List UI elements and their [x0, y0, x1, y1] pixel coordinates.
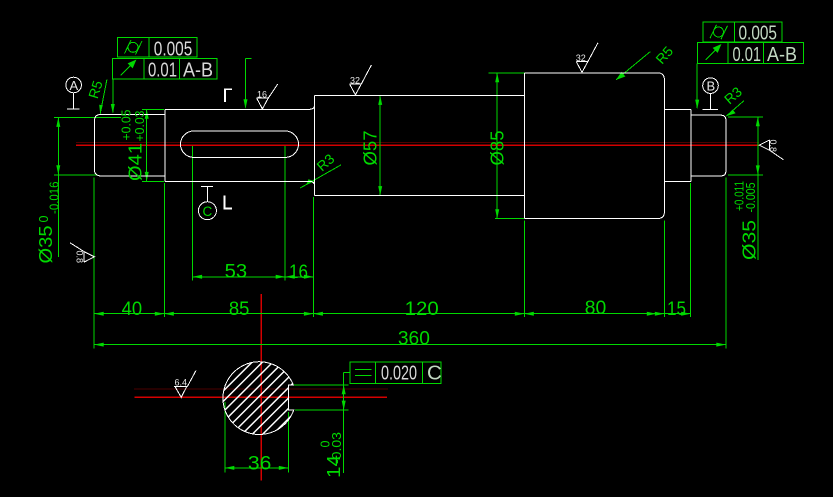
leader to section B top [246, 58, 252, 60]
arrows dim 40 [94, 312, 104, 316]
section D bottom edge with R5 corner [524, 212, 664, 219]
cutting plane mark L [225, 195, 233, 208]
dim Ø35 right: dimension line [757, 117, 759, 260]
dim Ø35 left: dimension line [57, 117, 59, 257]
wire: main horizontal centerline (red) [76, 144, 759, 146]
dim Ø35 right: extension lines [728, 116, 763, 118]
symbol cylindricity (right frame) [714, 27, 724, 37]
svg-text:0.8: 0.8 [768, 140, 778, 153]
svg-text:16: 16 [289, 262, 308, 283]
arrows dim 14 [342, 385, 346, 395]
leader radius R3 right [726, 101, 744, 117]
roughness 3.2 on section C [350, 65, 372, 95]
arrow R3 middle leader [306, 179, 314, 185]
svg-text:0.020: 0.020 [381, 362, 417, 385]
extension line at x=725 (360 right) [725, 178, 727, 349]
svg-text:C: C [203, 204, 213, 219]
svg-text:C: C [427, 362, 442, 385]
section E (15 long) top edge [664, 109, 690, 111]
dim text 14 0/-0.03 (rotated) [323, 455, 344, 478]
face E/F [690, 110, 692, 182]
cutting plane mark Γ [225, 89, 232, 102]
section B (Ø41x85) top edge with R3 fillet [165, 104, 315, 109]
roughness 1.6 on section B [257, 84, 278, 109]
face A/B [164, 109, 166, 181]
section mark C circle [198, 186, 216, 219]
frame cylindricity 0.005 (right) [703, 22, 782, 42]
symbol circular runout (right frame) [706, 47, 719, 60]
arrows dim 16 [285, 275, 295, 279]
radius label R3 middle (rotated) [313, 150, 337, 174]
face B/C [314, 95, 316, 195]
arrows dim 120 [313, 312, 323, 316]
extension line at x=94 (40 dim / 360 dim) [93, 178, 95, 349]
dim 14: extension lines [291, 384, 349, 386]
svg-text:A: A [70, 78, 79, 93]
dim Ø41: dimension line [146, 109, 148, 181]
dim 36: extension lines [224, 402, 226, 473]
roughness 3.2 on section D [576, 43, 598, 73]
dim 36: dimension line [225, 467, 288, 469]
svg-text:53: 53 [225, 261, 248, 282]
leader radius R5 right [616, 52, 650, 80]
extension line from keyway left center [192, 146, 194, 281]
dim Ø85: dimension line [496, 73, 498, 219]
frame cylindricity 0.005 (left) [117, 38, 197, 57]
face C/D [523, 73, 525, 219]
dim Ø35 left: extension lines [54, 116, 121, 118]
svg-text:32: 32 [576, 53, 586, 63]
svg-text:0.8: 0.8 [75, 251, 85, 264]
dim Ø41: extension lines [142, 108, 164, 110]
arrow R5 right leader [616, 72, 625, 80]
wire: section view horizontal centerline ghost [134, 388, 388, 390]
roughness 6.4 at section view [174, 371, 196, 398]
symbol cylindricity (left frame) [128, 42, 138, 52]
leader from right tolerance frames to section E [696, 63, 698, 108]
svg-text:Ø41: Ø41 [125, 143, 146, 181]
svg-text:A-B: A-B [767, 43, 797, 66]
svg-text:+0.03: +0.03 [133, 110, 147, 141]
face D/E [663, 80, 665, 212]
svg-text:360: 360 [398, 329, 430, 350]
section C (Ø57x120) top edge [315, 94, 525, 96]
symbol circular runout (left frame) [121, 63, 134, 76]
svg-text:-0.03: -0.03 [330, 432, 344, 464]
frame runout 0.01 A-B (left) [113, 58, 218, 79]
extension line at x=313 (85/120) [312, 197, 314, 317]
svg-text:0: 0 [37, 216, 51, 223]
arrows Ø35 right [756, 117, 760, 127]
symbol symmetry (bottom frame) [355, 369, 372, 371]
arrows Ø41 [145, 109, 149, 119]
svg-text:80: 80 [585, 298, 607, 319]
svg-text:120: 120 [405, 299, 439, 320]
svg-text:16: 16 [257, 89, 267, 99]
svg-text:85: 85 [229, 299, 250, 320]
keyway slot (stadium) [181, 131, 299, 157]
svg-text:-0.005: -0.005 [744, 182, 758, 212]
arrows dim 53 [193, 275, 203, 279]
dim 14: dimension line + leader elbow to frame [343, 373, 345, 473]
arrow leader frames left [111, 104, 115, 114]
datum B symbol [703, 78, 719, 110]
leader from left tolerance frames to section A [112, 79, 114, 113]
svg-text:0.005: 0.005 [739, 22, 778, 45]
arrows dim 85 [164, 312, 174, 316]
arrows dim 15 [647, 312, 657, 316]
arrow leader frames right [695, 100, 699, 110]
roughness 0.8 right (rotated, points left) [759, 140, 783, 160]
section E bottom edge [664, 180, 690, 182]
wire: main centerline ghost [76, 142, 759, 144]
svg-text:6.4: 6.4 [175, 378, 188, 388]
roughness 0.8 left (rotated, points right) [70, 243, 95, 262]
svg-text:Ø57: Ø57 [360, 131, 381, 166]
extension line at x=524 (120/80) [523, 221, 525, 318]
arrows Ø35 left [56, 117, 60, 127]
dim line 40/85/120/80/15 [94, 313, 691, 315]
leader radius R5 left [100, 80, 107, 114]
radius label R3 right (rotated) [721, 83, 745, 107]
arrowheads (green) [56, 72, 760, 470]
section C bottom edge [315, 195, 525, 197]
extension line at x=664 (80/15) [663, 221, 665, 318]
svg-text:0.005: 0.005 [154, 37, 193, 60]
svg-text:Ø35: Ø35 [35, 226, 56, 264]
extension line at x=690 (end of 15) [690, 183, 692, 317]
hatched shaft cross-section [223, 362, 294, 435]
frame runout 0.01 A-B (right) [698, 43, 804, 64]
section F (Ø35x20) outline with R3 corners [691, 115, 726, 176]
arrows dim 80 [524, 312, 534, 316]
dim text Ø35 0/-0.016 (rotated, left) [35, 226, 56, 264]
dim text Ø41 +0.05/+0.03 (rotated) [125, 143, 146, 181]
svg-text:+0.05: +0.05 [120, 109, 134, 140]
dim text Ø85 (rotated) [487, 131, 508, 166]
radius label R5 left (rotated) [85, 78, 106, 100]
svg-text:-0.016: -0.016 [48, 181, 62, 214]
dim line 53/16 [193, 276, 314, 278]
wire: section view horizontal centerline (red) [135, 396, 387, 398]
extension line from keyway right center [284, 146, 286, 281]
arrows dim 36 [225, 466, 235, 470]
svg-text:B: B [707, 79, 716, 94]
extension line at x=164 (40/85) [163, 183, 165, 317]
svg-text:0.01: 0.01 [733, 43, 762, 66]
svg-text:40: 40 [122, 299, 143, 320]
leader radius R3 middle [300, 165, 341, 188]
section B bottom edge with R3 fillet [165, 181, 315, 186]
arrow leader section B [244, 99, 248, 109]
frame symmetry 0.020 C (bottom) [350, 362, 441, 383]
radius label R5 right (rotated) [652, 43, 676, 67]
arrow R3 right leader [726, 110, 735, 117]
section D (Ø85x80) top edge with R5 corner [524, 73, 664, 80]
arrow R5 left leader [99, 105, 103, 114]
svg-text:15: 15 [667, 299, 686, 320]
svg-text:Ø85: Ø85 [487, 131, 508, 166]
frame value texts [148, 22, 797, 385]
dim Ø57: dimension line [379, 95, 381, 195]
svg-text:32: 32 [350, 76, 360, 86]
dim text Ø57 (rotated) [360, 131, 381, 166]
section A (Ø35x40) outline with R5 corners [94, 114, 164, 175]
svg-text:Ø35: Ø35 [739, 220, 760, 260]
dim line 360 [94, 344, 726, 346]
dim text Ø35 +0.011/-0.005 (rotated, right) [739, 220, 760, 260]
arrows Ø85 [495, 73, 499, 83]
svg-text:0.01: 0.01 [148, 59, 177, 82]
svg-text:36: 36 [248, 453, 272, 474]
wire: section view vertical centerline (red) [260, 294, 262, 481]
arrows dim 360 [94, 343, 104, 347]
arrows Ø57 [378, 95, 382, 105]
svg-text:A-B: A-B [183, 59, 213, 82]
dim Ø85: extension lines [489, 72, 526, 74]
datum A symbol [66, 77, 82, 109]
